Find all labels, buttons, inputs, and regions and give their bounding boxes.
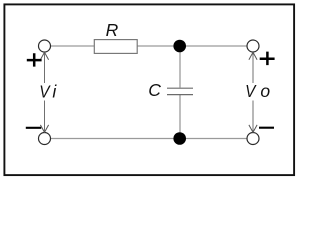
terminal output +: [247, 40, 259, 52]
capacitor C top plate: [167, 87, 193, 89]
Vo arrowhead down: [249, 125, 257, 132]
Vi arrow shaft upper: [44, 53, 46, 84]
polarity + input: [27, 53, 42, 66]
polarity - input: [26, 127, 41, 129]
svg-text:C: C: [148, 80, 161, 100]
Vo arrowhead up: [249, 52, 257, 59]
border frame: [4, 4, 294, 175]
Vi arrow shaft lower: [44, 101, 46, 133]
wire capacitor branch: [179, 46, 181, 88]
wire top-right: resistor to output terminal: [138, 45, 248, 47]
capacitor C bottom plate: [167, 94, 193, 96]
resistor R body: [94, 40, 137, 54]
terminal input +: [39, 40, 51, 52]
svg-text:R: R: [106, 20, 119, 40]
svg-text:o: o: [260, 81, 270, 101]
junction node bottom (C-return): [173, 132, 186, 145]
polarity - output: [259, 127, 274, 129]
Vi arrowhead up: [40, 52, 48, 59]
Vi arrowhead down: [40, 125, 48, 132]
Vo arrow shaft lower: [252, 101, 254, 133]
terminal input -: [39, 133, 51, 145]
wire top-left: input terminal to resistor: [51, 45, 95, 47]
Vo arrow shaft upper: [252, 53, 254, 84]
polarity + output: [260, 52, 275, 66]
wire bottom: [51, 138, 248, 140]
junction node top (R-C): [173, 40, 186, 53]
terminal output -: [247, 133, 259, 145]
